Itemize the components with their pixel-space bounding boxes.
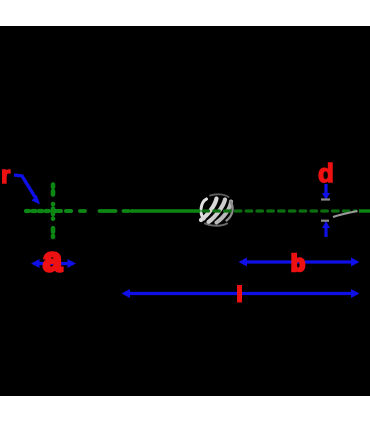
svg-text:d: d xyxy=(318,158,334,188)
svg-text:b: b xyxy=(291,250,305,276)
svg-text:a: a xyxy=(43,241,63,279)
svg-text:r: r xyxy=(1,162,10,189)
